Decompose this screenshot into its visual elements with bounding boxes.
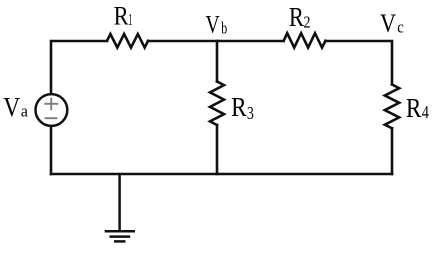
- wire R3 to bottom: [216, 125, 219, 174]
- label R3: [231, 91, 254, 123]
- svg-text:R: R: [231, 91, 247, 122]
- label R2: [289, 2, 311, 32]
- svg-text:c: c: [397, 18, 404, 37]
- label R4: [406, 92, 429, 123]
- svg-text:R: R: [289, 2, 304, 32]
- svg-text:R: R: [114, 1, 129, 31]
- resistor R1: [107, 34, 148, 48]
- wire Vb stem: top wire to R3: [216, 41, 219, 82]
- ground: [105, 174, 135, 241]
- label node Va: [3, 91, 28, 122]
- wire top-right: R2 to Vc corner: [326, 41, 393, 85]
- wire right: R4 to bottom corner: [391, 128, 394, 174]
- wire source bottom to bottom rail: [50, 126, 53, 174]
- svg-text:a: a: [21, 102, 28, 121]
- svg-text:V: V: [3, 91, 20, 122]
- resistor R4: [385, 85, 399, 129]
- voltage source Va circle: [36, 94, 68, 126]
- resistor R2: [284, 33, 326, 47]
- svg-text:V: V: [206, 12, 220, 39]
- voltage source minus sign: [45, 117, 58, 119]
- label node Vb: [206, 12, 228, 39]
- wire top-left: source top to R1: [51, 41, 107, 94]
- svg-text:4: 4: [422, 102, 429, 122]
- svg-text:V: V: [380, 8, 396, 38]
- svg-text:3: 3: [247, 103, 254, 123]
- voltage source plus sign: [44, 98, 58, 118]
- svg-text:R: R: [406, 92, 422, 123]
- svg-text:1: 1: [128, 10, 132, 29]
- wire node Vb top: R1 to R2: [148, 40, 284, 43]
- label R1: [114, 1, 133, 31]
- wire bottom rail: [51, 173, 392, 176]
- svg-text:b: b: [221, 19, 227, 38]
- label node Vc: [380, 8, 404, 38]
- resistor R3: [210, 82, 224, 126]
- svg-text:2: 2: [304, 12, 311, 31]
